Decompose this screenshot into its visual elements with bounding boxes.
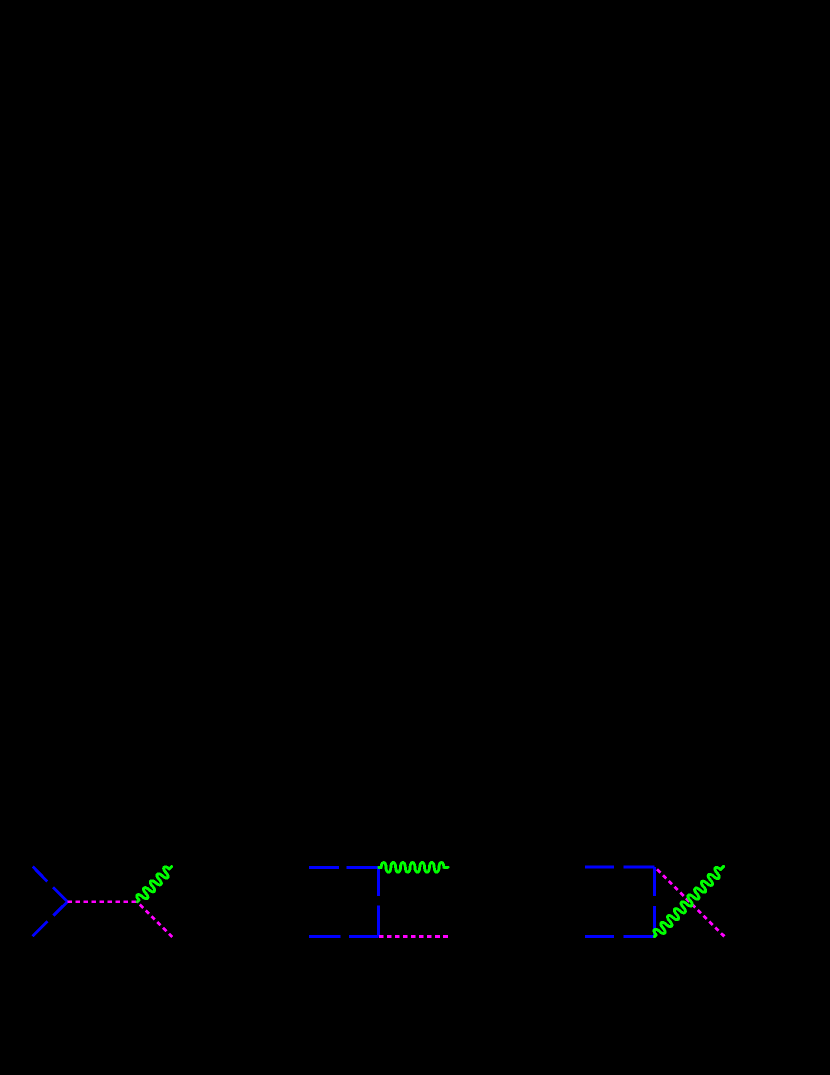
diagram 3: box, crossed	[585, 863, 727, 940]
outgoing scalar (magenta dashes, right)	[378, 935, 448, 938]
incoming dashed scalar line (bottom)	[309, 935, 378, 938]
outgoing scalar (magenta dashes, down-right)	[137, 902, 172, 937]
incoming dashed scalar line (top)	[585, 866, 655, 869]
internal scalar propagator (vertical dashes)	[653, 867, 656, 937]
incoming dashed scalar line (top)	[309, 866, 378, 869]
outgoing photon (green wavy, crossing up-right)	[651, 863, 727, 940]
internal scalar propagator (horizontal magenta dashes)	[67, 900, 137, 903]
incoming dashed scalar line (bottom)	[585, 935, 655, 938]
incoming dashed scalar line (lower left)	[33, 902, 68, 936]
outgoing scalar (magenta dashes, crossing down-right)	[655, 867, 725, 936]
internal scalar propagator (vertical dashes)	[377, 867, 380, 936]
outgoing photon (green wavy, up-right)	[134, 863, 175, 905]
diagram 2: box, uncrossed	[309, 862, 448, 936]
incoming dashed scalar line (upper left)	[33, 867, 68, 902]
diagram 1: s-channel annihilation	[33, 863, 175, 937]
outgoing photon (green wavy, right)	[379, 862, 448, 872]
